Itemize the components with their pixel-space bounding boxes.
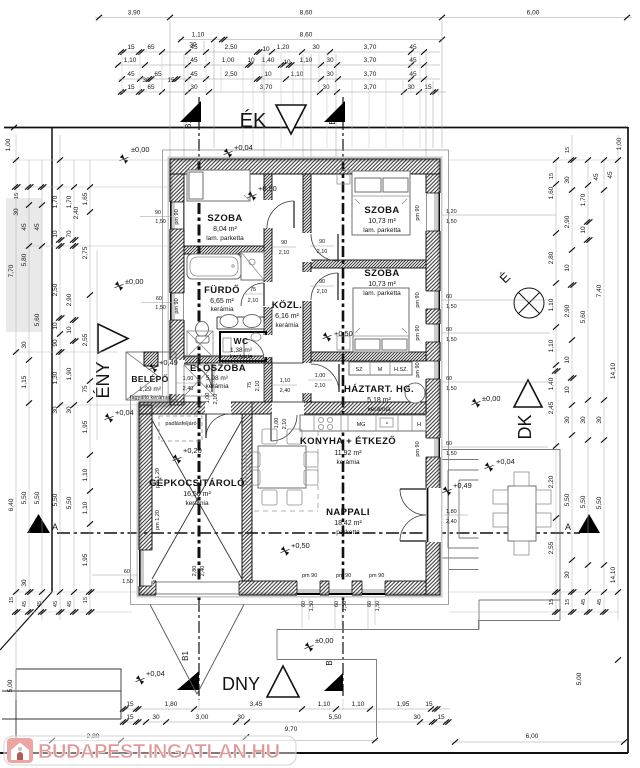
svg-text:parketta: parketta	[336, 529, 360, 536]
svg-text:45: 45	[37, 601, 43, 607]
padlasfeljaro dashed	[159, 416, 202, 441]
svg-text:1,40: 1,40	[262, 57, 275, 64]
svg-text:5,00: 5,00	[576, 672, 583, 685]
svg-text:30: 30	[21, 579, 28, 587]
door szoba1-kozl	[267, 201, 294, 228]
svg-text:1,10: 1,10	[82, 501, 89, 514]
svg-text:15: 15	[549, 599, 555, 605]
svg-text:5,18 m²: 5,18 m²	[367, 397, 391, 404]
svg-text:9,70: 9,70	[285, 726, 298, 733]
svg-text:15: 15	[425, 701, 433, 708]
svg-text:5,00: 5,00	[7, 679, 14, 692]
svg-text:6,40: 6,40	[8, 498, 15, 511]
svg-text:15: 15	[83, 597, 89, 603]
svg-text:15: 15	[565, 599, 571, 605]
svg-text:M: M	[378, 367, 383, 373]
garage door from eloszoba gap	[205, 401, 231, 415]
svg-text:SZOBA: SZOBA	[364, 205, 399, 216]
left wall window labels	[140, 216, 172, 218]
svg-text:kerámia: kerámia	[336, 459, 360, 466]
svg-text:+0,04: +0,04	[496, 457, 515, 466]
row4 line	[116, 64, 440, 66]
svg-text:BELÉPŐ: BELÉPŐ	[131, 373, 168, 384]
belepo porch	[126, 352, 176, 400]
left boundary diagonal	[0, 592, 52, 650]
row1 line	[95, 17, 632, 19]
svg-text:10: 10	[52, 322, 59, 330]
door wc	[244, 339, 264, 359]
svg-text:2,90: 2,90	[564, 215, 571, 228]
svg-text:1,50: 1,50	[375, 601, 381, 612]
haztart appliances	[349, 362, 412, 375]
svg-text:30: 30	[142, 77, 150, 84]
svg-text:ÉNY: ÉNY	[93, 361, 113, 398]
wc door gap	[263, 335, 273, 357]
svg-text:kerámia: kerámia	[229, 354, 253, 361]
svg-text:5,50: 5,50	[34, 491, 41, 504]
svg-text:pm 90: pm 90	[415, 362, 421, 377]
window szoba3a right	[425, 291, 441, 309]
bed szoba2	[352, 171, 410, 235]
svg-text:1,50: 1,50	[446, 219, 457, 225]
svg-text:15: 15	[127, 84, 135, 91]
svg-text:15: 15	[565, 147, 571, 153]
svg-text:45: 45	[67, 601, 73, 607]
interior wall edge lines	[139, 174, 426, 586]
right wall window labels	[442, 214, 556, 216]
svg-text:10: 10	[262, 46, 270, 53]
svg-text:10: 10	[564, 264, 571, 272]
svg-text:2,40: 2,40	[200, 566, 206, 577]
door szoba2	[311, 234, 338, 261]
svg-text:15: 15	[424, 84, 432, 91]
szoba1/furdo wall	[184, 246, 264, 254]
corridor right wall	[303, 174, 311, 402]
svg-text:kerámia: kerámia	[275, 322, 299, 329]
svg-text:15: 15	[549, 173, 555, 179]
row3 line	[118, 51, 440, 53]
svg-text:2,10: 2,10	[279, 250, 290, 256]
svg-text:ELŐSZOBA: ELŐSZOBA	[190, 362, 246, 374]
svg-text:+0,04: +0,04	[115, 408, 134, 417]
svg-text:90: 90	[319, 239, 325, 245]
svg-text:1,15: 1,15	[21, 375, 28, 388]
svg-text:1,60: 1,60	[548, 186, 555, 199]
WINDOWS	[138, 193, 441, 596]
svg-text:1,90: 1,90	[66, 367, 73, 380]
WATERMARK	[4, 736, 296, 765]
svg-text:2,40: 2,40	[280, 388, 291, 394]
svg-text:3,70: 3,70	[260, 84, 273, 91]
svg-text:5,50: 5,50	[329, 714, 342, 721]
svg-text:2,40: 2,40	[73, 206, 80, 219]
svg-text:pm 1,20: pm 1,20	[155, 510, 161, 530]
svg-text:3,00: 3,00	[196, 714, 209, 721]
basin2	[243, 315, 261, 328]
svg-text:BUDAPEST.INGATLAN.HU: BUDAPEST.INGATLAN.HU	[38, 741, 280, 763]
svg-text:5,50: 5,50	[66, 496, 73, 509]
svg-text:+0,04: +0,04	[146, 669, 165, 678]
roof overhang outline	[131, 150, 449, 605]
svg-text:65: 65	[154, 71, 162, 78]
svg-text:1,70: 1,70	[580, 193, 587, 206]
svg-text:6,65 m²: 6,65 m²	[210, 298, 234, 305]
svg-text:1,50: 1,50	[122, 579, 133, 585]
svg-text:10: 10	[564, 356, 571, 364]
svg-text:1,10: 1,10	[548, 339, 555, 352]
svg-text:KÖZL.: KÖZL.	[272, 300, 303, 311]
window szoba2 right	[425, 193, 441, 231]
svg-text:1,70: 1,70	[66, 195, 73, 208]
top boundary line	[4, 127, 628, 129]
svg-text:SZ: SZ	[355, 367, 363, 373]
svg-text:90: 90	[52, 339, 59, 347]
svg-text:B: B	[328, 119, 337, 124]
terrace bottom outline	[277, 621, 560, 738]
svg-text:pm 90: pm 90	[369, 573, 384, 579]
flag B1 bottom	[177, 671, 199, 690]
svg-text:H.SZ.: H.SZ.	[394, 367, 409, 373]
DOORS	[184, 201, 428, 542]
left boundary line	[51, 127, 53, 592]
wc room outline	[220, 332, 266, 361]
svg-text:45: 45	[127, 71, 135, 78]
window haztart right	[425, 361, 441, 379]
svg-text:5,50: 5,50	[596, 496, 603, 509]
svg-text:45: 45	[190, 57, 198, 64]
garage/eloszoba/konyha top wall	[139, 402, 426, 414]
boiler circle	[405, 383, 425, 403]
svg-text:10,73 m²: 10,73 m²	[368, 218, 396, 225]
svg-text:3,70: 3,70	[364, 71, 377, 78]
front door	[184, 364, 212, 392]
svg-text:3,70: 3,70	[364, 84, 377, 91]
haztart door gap	[302, 363, 312, 393]
svg-text:10: 10	[66, 326, 73, 334]
furdo corner X	[184, 331, 214, 396]
svg-text:1,00: 1,00	[274, 418, 280, 429]
svg-text:7,70: 7,70	[8, 264, 15, 277]
svg-text:1,10: 1,10	[291, 71, 304, 78]
svg-text:70: 70	[66, 230, 73, 238]
svg-text:3,70: 3,70	[364, 57, 377, 64]
svg-text:90: 90	[319, 279, 325, 285]
svg-text:45: 45	[190, 71, 198, 78]
svg-text:pm 90: pm 90	[336, 573, 351, 579]
svg-text:padlásfeljáró: padlásfeljáró	[165, 421, 196, 427]
svg-text:1,00: 1,00	[315, 373, 326, 379]
svg-text:60: 60	[124, 569, 130, 575]
svg-text:2,40: 2,40	[446, 519, 457, 525]
szoba1 door gap	[263, 200, 273, 228]
garage left wall	[139, 405, 152, 581]
svg-text:pm 90: pm 90	[415, 441, 421, 456]
svg-text:1,00: 1,00	[616, 137, 623, 150]
bed szoba1	[187, 170, 250, 201]
ROOM LABELS	[130, 205, 414, 536]
svg-text:2,90: 2,90	[564, 304, 571, 317]
svg-text:1,00: 1,00	[205, 393, 211, 404]
door szoba3	[311, 273, 338, 300]
svg-text:30: 30	[596, 416, 603, 424]
svg-text:5,50: 5,50	[52, 493, 59, 506]
svg-text:KONYHA + ÉTKEZŐ: KONYHA + ÉTKEZŐ	[300, 435, 396, 447]
svg-text:MG: MG	[357, 422, 366, 428]
svg-text:pm 90: pm 90	[415, 292, 421, 307]
svg-text:2,90: 2,90	[66, 293, 73, 306]
svg-text:30: 30	[13, 208, 20, 216]
svg-text:10,73 m²: 10,73 m²	[368, 281, 396, 288]
svg-text:5,98 m²: 5,98 m²	[206, 375, 229, 382]
svg-text:2,40: 2,40	[183, 386, 194, 392]
svg-text:kerámia: kerámia	[205, 383, 229, 390]
svg-text:±0,00: ±0,00	[482, 394, 500, 403]
svg-text:2,10: 2,10	[317, 249, 328, 255]
A section markers	[27, 514, 50, 533]
window nappali bottom x3	[297, 580, 320, 596]
svg-text:1,65: 1,65	[82, 192, 89, 205]
svg-text:1,29 m²: 1,29 m²	[139, 386, 162, 393]
svg-text:1,50: 1,50	[155, 219, 166, 225]
svg-text:8,60: 8,60	[300, 32, 313, 39]
svg-text:fagyálló kerámia: fagyálló kerámia	[130, 395, 171, 401]
svg-text:60: 60	[446, 294, 452, 300]
svg-text:A: A	[565, 522, 571, 532]
garage door opening bottom	[156, 580, 239, 596]
svg-text:8,60: 8,60	[300, 10, 313, 17]
svg-text:60: 60	[446, 441, 452, 447]
kitchen zone dashed divider	[254, 431, 318, 511]
garage X	[152, 420, 242, 579]
chain verticals	[122, 53, 420, 148]
dimension connector lines	[10, 160, 618, 710]
svg-text:65: 65	[147, 44, 155, 51]
svg-text:1,70: 1,70	[52, 195, 59, 208]
kitchen counter	[300, 415, 426, 431]
svg-text:1,20: 1,20	[277, 44, 290, 51]
nappali french doors	[400, 489, 426, 515]
svg-text:15: 15	[14, 193, 20, 199]
svg-text:2,45: 2,45	[548, 401, 555, 414]
svg-text:HÁZTART. HG.: HÁZTART. HG.	[344, 384, 414, 395]
B1 / B SECTION LINES vertical	[199, 97, 343, 700]
svg-text:3,45: 3,45	[250, 701, 263, 708]
svg-text:30: 30	[322, 84, 330, 91]
svg-text:pm 90: pm 90	[174, 209, 180, 224]
svg-text:45: 45	[409, 57, 417, 64]
svg-text:kerámia: kerámia	[367, 406, 391, 413]
svg-text:1,50: 1,50	[446, 304, 457, 310]
svg-text:45: 45	[607, 171, 614, 179]
svg-text:45: 45	[593, 173, 600, 181]
svg-text:NAPPALI: NAPPALI	[326, 507, 370, 518]
svg-text:kerámia: kerámia	[185, 500, 209, 507]
WALL OPENINGS (doors/windows gaps)	[169, 200, 441, 542]
svg-text:1,50: 1,50	[309, 601, 315, 612]
svg-text:lam. parketta: lam. parketta	[363, 227, 401, 234]
svg-text:15: 15	[126, 714, 134, 721]
svg-text:5,60: 5,60	[34, 313, 41, 326]
svg-text:1,10: 1,10	[82, 468, 89, 481]
svg-text:75: 75	[82, 385, 89, 393]
svg-text:B1: B1	[184, 119, 193, 129]
svg-text:15: 15	[9, 597, 15, 603]
top wall	[170, 159, 440, 174]
szoba3 door gap	[302, 272, 312, 301]
wc/eloszoba wall	[184, 356, 271, 363]
left wall upper	[170, 174, 184, 405]
svg-text:75: 75	[247, 382, 253, 388]
svg-text:kerámia: kerámia	[210, 306, 234, 313]
row2 line	[178, 39, 442, 41]
basin1	[220, 315, 238, 328]
svg-text:60: 60	[156, 296, 162, 302]
svg-text:45: 45	[34, 223, 41, 231]
svg-text:90: 90	[155, 210, 161, 216]
svg-text:30: 30	[326, 57, 334, 64]
svg-text:2,10: 2,10	[213, 394, 219, 405]
svg-text:1,40: 1,40	[548, 377, 555, 390]
svg-text:+0,50: +0,50	[258, 184, 277, 193]
nightstand szoba2	[337, 170, 350, 184]
svg-text:15: 15	[127, 44, 135, 51]
rotated door labels	[205, 381, 288, 430]
svg-text:14,10: 14,10	[610, 362, 617, 379]
svg-text:30: 30	[312, 44, 320, 51]
svg-text:B1: B1	[181, 651, 190, 661]
svg-text:2,50: 2,50	[52, 283, 59, 296]
svg-text:1,80: 1,80	[446, 509, 457, 515]
svg-text:30: 30	[580, 416, 587, 424]
svg-text:3,90: 3,90	[128, 10, 141, 17]
svg-text:30: 30	[237, 714, 245, 721]
door haztart	[311, 364, 339, 392]
bottom wall	[139, 581, 426, 595]
BOTTOM DIMENSION ROWS	[40, 701, 628, 753]
svg-text:45: 45	[581, 599, 587, 605]
svg-text:10: 10	[247, 57, 255, 64]
svg-text:1,10: 1,10	[352, 701, 365, 708]
section A line	[57, 532, 580, 534]
svg-text:1,50: 1,50	[446, 386, 457, 392]
konyha opening gap	[272, 401, 304, 415]
svg-text:B: B	[325, 660, 334, 665]
svg-text:45: 45	[597, 599, 603, 605]
svg-text:2,55: 2,55	[548, 541, 555, 554]
svg-text:1,00: 1,00	[222, 57, 235, 64]
svg-text:1,50: 1,50	[446, 337, 457, 343]
svg-text:SZOBA: SZOBA	[207, 213, 242, 224]
svg-text:5,50: 5,50	[21, 491, 28, 504]
svg-text:2,10: 2,10	[282, 419, 288, 430]
svg-text:+0,04: +0,04	[234, 143, 253, 152]
svg-text:2,10: 2,10	[317, 289, 328, 295]
door garage from eloszoba	[206, 414, 230, 438]
svg-text:lam. parketta: lam. parketta	[206, 235, 244, 242]
svg-text:1,30: 1,30	[52, 371, 59, 384]
extension lines	[169, 20, 171, 158]
svg-text:6,16 m²: 6,16 m²	[275, 313, 299, 320]
svg-text:90: 90	[281, 240, 287, 246]
bed szoba3	[353, 288, 409, 352]
svg-text:15: 15	[167, 77, 175, 84]
FURNITURE	[187, 170, 551, 555]
svg-text:2,75: 2,75	[82, 246, 89, 259]
svg-text:2,55: 2,55	[82, 333, 89, 346]
svg-text:2,80: 2,80	[548, 251, 555, 264]
svg-text:1,50: 1,50	[342, 601, 348, 612]
right wall	[426, 174, 440, 595]
WALLS	[139, 159, 440, 595]
svg-text:pm 90: pm 90	[415, 205, 421, 220]
szoba3/haztart wall	[311, 352, 426, 361]
svg-text:30: 30	[564, 176, 571, 184]
exterior insulation gray band	[139, 159, 440, 595]
window/door dim labels	[92, 205, 556, 630]
flag B top	[324, 101, 345, 122]
svg-text:30: 30	[152, 714, 160, 721]
svg-text:1,95: 1,95	[82, 420, 89, 433]
svg-text:15: 15	[437, 714, 445, 721]
svg-text:45: 45	[22, 601, 28, 607]
svg-text:10: 10	[283, 59, 291, 66]
svg-text:DNY: DNY	[222, 674, 260, 694]
window szoba1 left	[169, 202, 185, 229]
svg-text:+0,20: +0,20	[183, 446, 202, 455]
window konyha right	[425, 438, 441, 457]
svg-text:lam. parketta: lam. parketta	[363, 290, 401, 297]
svg-text:1,50: 1,50	[446, 451, 457, 457]
svg-text:30: 30	[564, 571, 571, 579]
svg-text:30: 30	[326, 71, 334, 78]
svg-text:3,70: 3,70	[364, 44, 377, 51]
LEFT DIMENSION COLUMNS	[7, 135, 97, 700]
svg-text:45: 45	[409, 44, 417, 51]
svg-text:+0,50: +0,50	[334, 329, 353, 338]
szoba2/szoba3 wall	[311, 260, 426, 268]
svg-text:1,00: 1,00	[183, 376, 194, 382]
front door gap	[169, 360, 185, 394]
svg-text:1,95: 1,95	[397, 701, 410, 708]
svg-text:1,95: 1,95	[82, 553, 89, 566]
north E circle	[496, 269, 544, 318]
left shaded strip	[6, 198, 42, 332]
interior door labels	[176, 239, 334, 576]
svg-text:1,10: 1,10	[192, 32, 205, 39]
svg-text:±0,00: ±0,00	[315, 636, 333, 645]
svg-text:45: 45	[190, 44, 198, 51]
terrace table	[508, 486, 536, 541]
svg-text:8,04 m²: 8,04 m²	[213, 226, 237, 233]
svg-text:5,80: 5,80	[21, 253, 28, 266]
row6 line	[118, 91, 446, 93]
svg-text:5,60: 5,60	[580, 310, 587, 323]
garage roof triangle	[150, 605, 244, 695]
svg-text:14,10: 14,10	[610, 566, 617, 583]
svg-text:H: H	[417, 422, 421, 428]
svg-text:ÉK: ÉK	[240, 109, 267, 132]
svg-text:2,20: 2,20	[548, 475, 555, 488]
TOP DIMENSION CHAINS	[95, 10, 632, 159]
svg-text:18,42 m²: 18,42 m²	[334, 520, 362, 527]
dining table konyha	[258, 446, 306, 488]
svg-text:1,10: 1,10	[124, 57, 137, 64]
corridor left wall	[264, 174, 272, 402]
row5 line	[118, 78, 440, 80]
svg-text:DK: DK	[515, 414, 535, 439]
szoba2 door gap	[302, 233, 312, 262]
svg-text:2,10: 2,10	[315, 383, 326, 389]
